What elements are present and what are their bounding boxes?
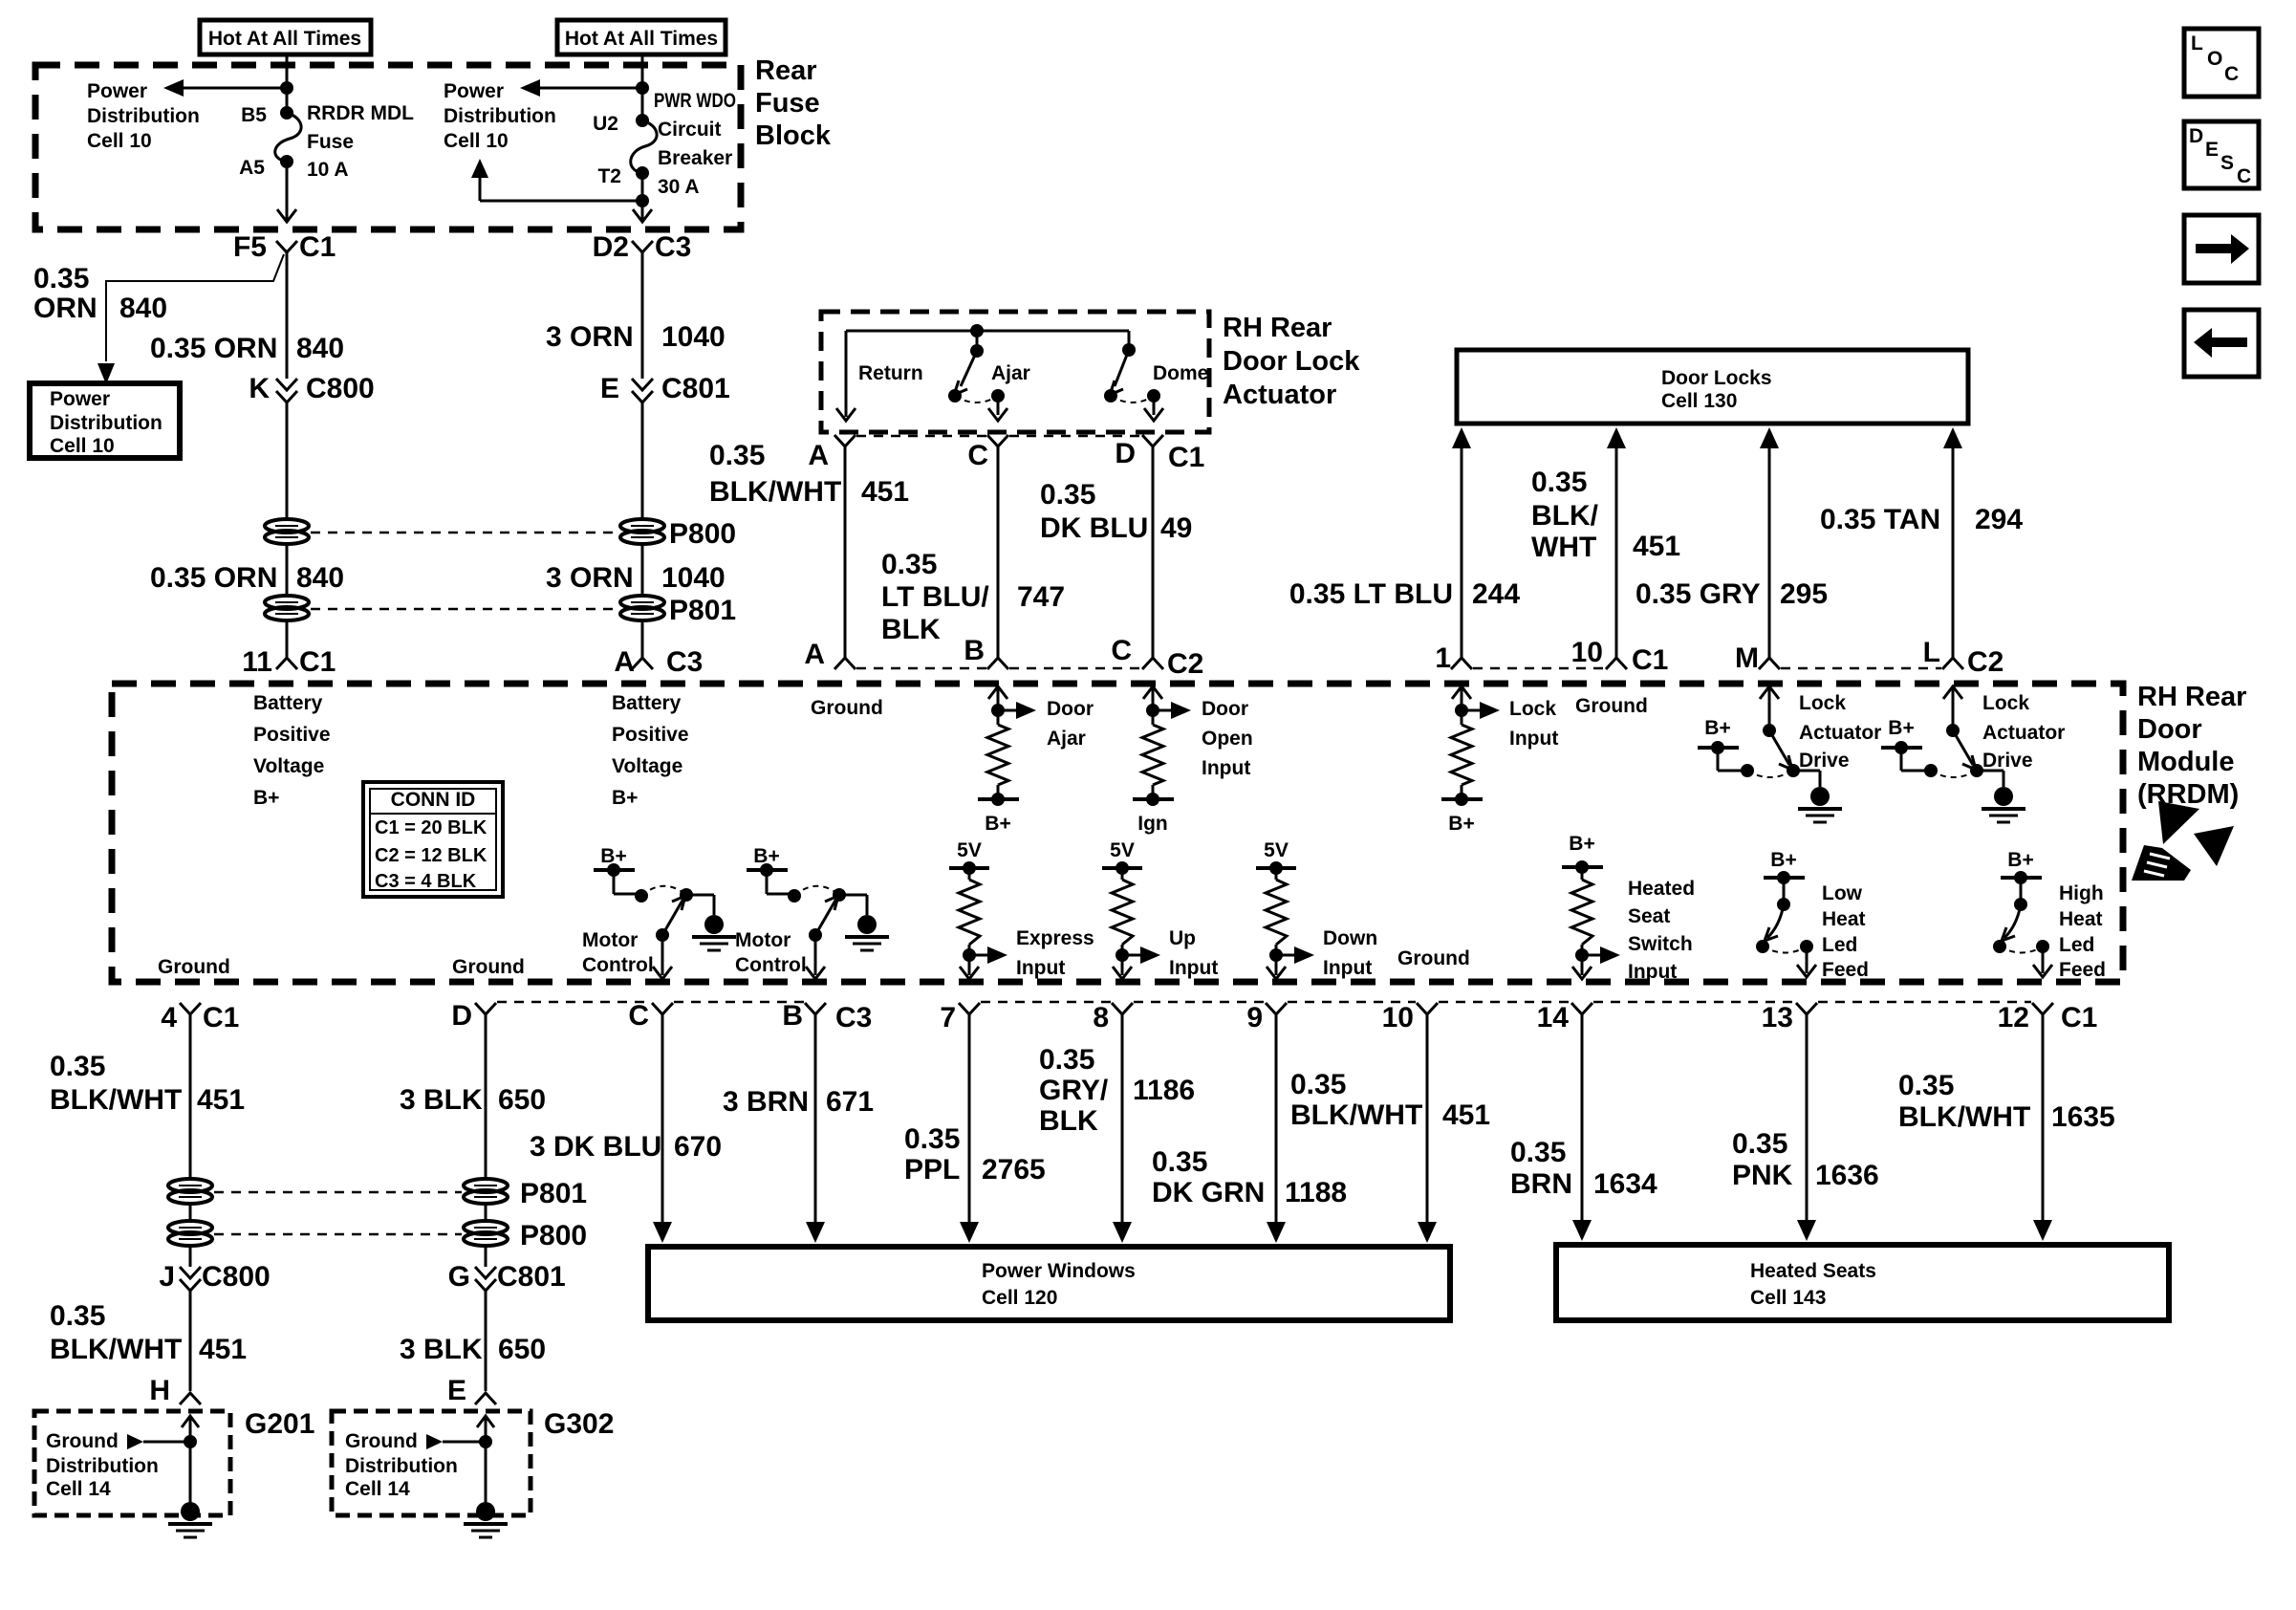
node B+ battery positive label (pin 11) [253, 692, 331, 809]
wire: 3 BLK 650 (G to E) [400, 1291, 546, 1391]
svg-text:451: 451 [197, 1084, 245, 1116]
inline connector P801 (ground right) [464, 1178, 587, 1209]
svg-text:F5: F5 [233, 231, 267, 263]
wire: 3 DK BLU 670 (pin C to Power Windows) [530, 1014, 722, 1243]
svg-text:C2 = 12 BLK: C2 = 12 BLK [375, 845, 487, 866]
switch: High Heat Led Feed (pin 12) [1993, 849, 2106, 981]
svg-text:1186: 1186 [1133, 1075, 1195, 1106]
svg-text:C1: C1 [299, 231, 336, 263]
wire: power distribution branch left 2 (arrow) [444, 79, 642, 152]
svg-text:Ground: Ground [345, 1430, 418, 1452]
wire: Return leg with arrow [836, 331, 923, 421]
svg-text:Lock: Lock [1509, 698, 1556, 720]
svg-text:Ground: Ground [158, 956, 230, 978]
svg-text:LT BLU/: LT BLU/ [881, 581, 989, 613]
svg-text:Heat: Heat [2059, 908, 2103, 930]
svg-text:C1: C1 [203, 1002, 239, 1033]
svg-text:O: O [2207, 48, 2222, 70]
wire: 3 ORN from C801 to P800 right [641, 402, 644, 519]
svg-text:U2: U2 [593, 113, 618, 135]
wire: between P801 and P800 [189, 1204, 192, 1221]
svg-text:5V: 5V [1264, 839, 1289, 861]
svg-text:451: 451 [861, 476, 909, 508]
svg-text:Input: Input [1628, 961, 1677, 983]
svg-text:Door Lock: Door Lock [1223, 346, 1360, 377]
svg-text:G302: G302 [544, 1408, 614, 1440]
svg-text:0.35: 0.35 [1290, 1069, 1346, 1100]
svg-text:BRN: BRN [1510, 1168, 1572, 1200]
svg-text:0.35: 0.35 [904, 1123, 960, 1155]
svg-text:Drive: Drive [1799, 750, 1850, 772]
svg-text:Up: Up [1169, 927, 1196, 949]
nav icon: DESC box [2184, 121, 2259, 188]
connector pin E (to G302) [447, 1375, 496, 1406]
svg-text:S: S [2220, 152, 2234, 174]
svg-text:CONN ID: CONN ID [391, 789, 476, 811]
wire: 0.35 GRY/BLK 1186 (pin 8 to Power Windows) [1039, 1014, 1195, 1243]
connector C3 pin D2 [593, 231, 692, 263]
dashed tie lines P801/P800 (ground) [214, 1192, 462, 1234]
wire: 0.35 BRN 1634 (pin 14 to Heated Seats) [1510, 1014, 1657, 1241]
svg-text:Door: Door [1047, 698, 1094, 720]
dashed connector face line C3 (D-C-B) [497, 1001, 804, 1004]
svg-text:Cell 10: Cell 10 [50, 435, 115, 457]
svg-text:L: L [2191, 33, 2203, 54]
svg-text:B+: B+ [1448, 813, 1474, 835]
svg-text:11: 11 [242, 646, 272, 678]
inline connector P801 (right) [620, 595, 736, 626]
svg-text:1040: 1040 [661, 562, 726, 594]
svg-text:0.35: 0.35 [1531, 467, 1587, 498]
connector C1 pin 13 [1762, 1002, 1817, 1033]
svg-text:Control: Control [582, 954, 654, 976]
connector C1 pin 8 [1093, 1002, 1133, 1033]
svg-text:C: C [1111, 635, 1132, 666]
svg-text:B+: B+ [1888, 717, 1914, 739]
svg-text:Down: Down [1323, 927, 1377, 949]
svg-text:C3 = 4 BLK: C3 = 4 BLK [375, 871, 477, 892]
svg-text:10: 10 [1382, 1002, 1414, 1033]
svg-text:294: 294 [1975, 504, 2023, 535]
svg-text:3 BRN: 3 BRN [723, 1086, 809, 1118]
svg-text:C: C [2224, 63, 2239, 85]
svg-text:Actuator: Actuator [1223, 380, 1336, 410]
svg-text:0.35: 0.35 [1732, 1128, 1787, 1160]
svg-text:1188: 1188 [1285, 1177, 1347, 1208]
svg-text:Block: Block [755, 120, 832, 151]
input circuit: Lock Input (pin 1) [1441, 686, 1558, 835]
svg-text:1634: 1634 [1593, 1168, 1657, 1200]
input circuit: Door Ajar (pin B) [978, 686, 1094, 835]
dashed connector face line (pins M-L) [1781, 667, 1941, 670]
svg-text:C1: C1 [2061, 1002, 2097, 1033]
wire: 0.35 BLK/WHT 1635 (pin 12 to Heated Seats) [1898, 1014, 2115, 1241]
svg-text:BLK/WHT: BLK/WHT [1290, 1099, 1422, 1131]
svg-text:B: B [964, 635, 985, 666]
wire: P800 to C801 pin G [485, 1246, 487, 1267]
connector C3 pin B (motor) [782, 1000, 872, 1033]
svg-text:BLK/WHT: BLK/WHT [50, 1084, 182, 1116]
connector C1 pin 9 [1246, 1002, 1287, 1033]
svg-text:BLK/WHT: BLK/WHT [1898, 1101, 2030, 1133]
svg-text:C1: C1 [1632, 644, 1668, 676]
svg-text:Ign: Ign [1137, 813, 1168, 835]
dashed tie line P800 [311, 532, 618, 534]
svg-text:Battery: Battery [612, 692, 682, 714]
svg-text:E: E [2205, 139, 2219, 161]
svg-text:BLK/WHT: BLK/WHT [50, 1334, 182, 1365]
svg-text:BLK: BLK [881, 614, 941, 645]
wire: actuator internal bus [846, 330, 1129, 333]
connector C800 pin J [159, 1261, 270, 1293]
ground G201 symbol [168, 1502, 212, 1537]
svg-text:Hot At All Times: Hot At All Times [208, 28, 361, 50]
connector C2 pin A (module) [804, 639, 856, 670]
ground distribution box G302 [332, 1408, 614, 1515]
svg-text:B+: B+ [1770, 849, 1796, 871]
circuit breaker: PWR WDO Circuit Breaker 30 A [593, 90, 736, 198]
wire: 0.35 ORN 840 branch to Power Distribution Cell 10 [33, 254, 284, 384]
svg-text:GRY/: GRY/ [1039, 1075, 1109, 1106]
wire: ORN 840 from C800 to P800 [286, 402, 289, 519]
svg-text:Cell 130: Cell 130 [1661, 390, 1737, 412]
svg-text:G: G [448, 1261, 470, 1293]
wire: 3 ORN to A/C3 [641, 620, 644, 657]
svg-text:B5: B5 [241, 104, 267, 126]
svg-text:C801: C801 [497, 1261, 566, 1293]
wire: 3 ORN 1040 between P800 and P801 right [546, 544, 726, 596]
svg-text:B+: B+ [985, 813, 1010, 835]
node Ground label (pin D) [452, 956, 525, 978]
CONN ID table [363, 782, 503, 897]
input circuit: Up Input (pin 8, 5V pull-up) [1102, 839, 1218, 979]
svg-text:D: D [2189, 125, 2203, 147]
connector pin H (to G201) [149, 1375, 201, 1406]
svg-text:5V: 5V [1110, 839, 1135, 861]
connector C2 pin L (lock actuator drive) [1923, 637, 2004, 678]
svg-text:Switch: Switch [1628, 933, 1693, 955]
inline connector P800 (ground left) [168, 1221, 212, 1246]
svg-text:DK GRN: DK GRN [1152, 1177, 1265, 1208]
svg-text:Door: Door [2137, 714, 2202, 745]
input circuit: Heated Seat Switch Input (pin 14) [1562, 833, 1695, 983]
nav icon: arrow left box [2184, 310, 2259, 377]
reference box: Power Distribution Cell 10 [30, 383, 180, 458]
svg-text:Seat: Seat [1628, 905, 1670, 927]
RH Rear Door Lock Actuator (dashed enclosure) [821, 312, 1360, 432]
junction box label: Hot At All Times (right) [557, 20, 726, 54]
svg-text:8: 8 [1093, 1002, 1109, 1033]
svg-text:C1: C1 [1168, 442, 1204, 473]
svg-text:ORN: ORN [33, 293, 97, 324]
svg-text:P800: P800 [520, 1220, 587, 1251]
svg-text:Motor: Motor [582, 929, 638, 951]
svg-text:Led: Led [1822, 934, 1857, 956]
svg-text:P800: P800 [669, 518, 736, 550]
wire: feed from Hot At All Times 1 to fuse B5 [280, 54, 293, 113]
svg-text:L: L [1923, 637, 1940, 668]
svg-text:Low: Low [1822, 882, 1863, 904]
input circuit: Down Input (pin 9, 5V pull-up) [1256, 839, 1377, 979]
connector C1 pin D (dome signal) [1115, 435, 1204, 473]
reference box: Heated Seats Cell 143 [1556, 1245, 2169, 1320]
svg-text:P801: P801 [669, 595, 736, 626]
svg-text:Heat: Heat [1822, 908, 1866, 930]
svg-text:Fuse: Fuse [307, 131, 354, 153]
svg-text:C1 = 20 BLK: C1 = 20 BLK [375, 817, 487, 838]
svg-text:(RRDM): (RRDM) [2137, 779, 2239, 810]
svg-text:0.35: 0.35 [709, 440, 765, 471]
connector C800 pin K [249, 373, 374, 404]
wire: 0.35 LT BLU/BLK 747 (actuator C to module B) [881, 446, 1065, 658]
dashed connector face line (pins 1-10) [1473, 667, 1605, 670]
wire: 3 BLK 650 (pin D to P801) [400, 1014, 546, 1179]
svg-text:0.35: 0.35 [1152, 1146, 1207, 1178]
svg-text:C3: C3 [666, 646, 703, 678]
svg-text:B: B [782, 1000, 803, 1032]
wire: 0.35 LT BLU 244 (pin 1 to Door Locks) [1289, 427, 1521, 658]
svg-text:C2: C2 [1167, 648, 1203, 680]
svg-text:0.35 ORN: 0.35 ORN [150, 562, 277, 594]
connector C1 pin F5 [233, 231, 336, 263]
svg-text:Feed: Feed [1822, 959, 1869, 981]
switch: window motor control (pin C) [582, 845, 736, 979]
node Ground label (pin 4) [158, 956, 230, 978]
Rear Fuse Block (dashed enclosure) [35, 55, 832, 229]
svg-text:D: D [1115, 438, 1136, 469]
inline connector P800 (right) [620, 518, 736, 550]
svg-text:A: A [804, 639, 825, 670]
svg-text:C800: C800 [306, 373, 375, 404]
svg-text:Power: Power [444, 80, 504, 102]
svg-text:Distribution: Distribution [50, 412, 162, 434]
svg-text:0.35 ORN: 0.35 ORN [150, 333, 277, 364]
connector C1 pin 11 (module battery feed) [242, 646, 336, 678]
svg-text:C3: C3 [655, 231, 691, 263]
wire: 0.35 BLK/WHT 451 (pin 4 to P801) [50, 1014, 245, 1179]
svg-text:Actuator: Actuator [1799, 722, 1881, 744]
svg-text:1635: 1635 [2051, 1101, 2115, 1133]
svg-text:C800: C800 [202, 1261, 271, 1293]
svg-text:Ajar: Ajar [991, 362, 1030, 384]
connector C3 pin A (module battery feed) [614, 646, 703, 678]
dashed connector face line C1 (7-12) [981, 1001, 2031, 1004]
svg-text:A5: A5 [239, 157, 265, 179]
svg-text:Express: Express [1016, 927, 1094, 949]
svg-text:1636: 1636 [1815, 1160, 1879, 1191]
svg-text:747: 747 [1017, 581, 1065, 613]
svg-text:0.35: 0.35 [1510, 1137, 1566, 1168]
svg-text:Power: Power [87, 80, 147, 102]
svg-text:Heated Seats: Heated Seats [1750, 1260, 1876, 1282]
svg-text:Cell 14: Cell 14 [46, 1478, 111, 1500]
svg-text:451: 451 [1442, 1099, 1490, 1131]
svg-text:0.35 GRY: 0.35 GRY [1635, 578, 1761, 610]
connector C3 pin C (motor) [628, 1000, 673, 1032]
switch: lock actuator drive L [1881, 686, 2065, 822]
svg-text:Feed: Feed [2059, 959, 2106, 981]
svg-text:Voltage: Voltage [253, 755, 324, 777]
svg-text:High: High [2059, 882, 2104, 904]
svg-text:RH Rear: RH Rear [1223, 313, 1332, 343]
inline connector P800 (ground right) [464, 1220, 587, 1251]
svg-text:13: 13 [1762, 1002, 1793, 1033]
svg-text:J: J [159, 1261, 175, 1293]
svg-text:0.35: 0.35 [881, 549, 937, 580]
svg-text:C1: C1 [299, 646, 336, 678]
wire: 3 BRN 671 (pin B to Power Windows) [723, 1014, 874, 1243]
svg-text:DK BLU: DK BLU [1040, 512, 1148, 544]
dashed connector face line C1 [856, 435, 1141, 438]
svg-text:C: C [628, 1000, 649, 1032]
svg-text:Cell 14: Cell 14 [345, 1478, 410, 1500]
svg-text:B+: B+ [1569, 833, 1594, 855]
svg-text:2765: 2765 [982, 1154, 1046, 1186]
wire: 0.35 BLK/WHT 451 (pin 10 to Door Locks) [1531, 427, 1680, 658]
svg-text:1040: 1040 [661, 321, 726, 353]
inline connector P800 (left) [265, 519, 309, 544]
svg-text:1: 1 [1435, 642, 1451, 674]
svg-text:Input: Input [1202, 757, 1250, 779]
svg-text:0.35: 0.35 [50, 1300, 105, 1332]
wire: 0.35 PNK 1636 (pin 13 to Heated Seats) [1732, 1014, 1879, 1241]
svg-text:Power: Power [50, 388, 110, 410]
svg-text:0.35: 0.35 [33, 263, 89, 294]
svg-text:3 ORN: 3 ORN [546, 321, 634, 353]
node Ground label (pin 10 module top) [1575, 695, 1648, 717]
wire: ORN to 11/C1 [286, 620, 289, 657]
svg-text:Actuator: Actuator [1982, 722, 2065, 744]
switch: door ajar contact [948, 324, 1030, 421]
svg-text:Ground: Ground [1575, 695, 1648, 717]
svg-text:Ajar: Ajar [1047, 728, 1086, 750]
svg-text:Input: Input [1509, 728, 1558, 750]
svg-text:E: E [447, 1375, 466, 1406]
connector C2 pin B (module) [964, 635, 1008, 669]
wire: between P801 and P800 right [485, 1204, 487, 1221]
svg-text:650: 650 [498, 1334, 546, 1365]
svg-text:BLK/WHT: BLK/WHT [709, 476, 841, 508]
svg-text:Positive: Positive [612, 724, 689, 746]
svg-text:Drive: Drive [1982, 750, 2033, 772]
reference box: Door Locks Cell 130 [1457, 350, 1968, 424]
svg-text:3 BLK: 3 BLK [400, 1334, 483, 1365]
svg-text:Distribution: Distribution [345, 1455, 458, 1477]
svg-text:B+: B+ [1704, 717, 1730, 739]
svg-text:B+: B+ [253, 787, 279, 809]
svg-text:650: 650 [498, 1084, 546, 1116]
ground distribution box G201 [34, 1408, 314, 1515]
wire: 0.35 ORN 840 (F5 to C800) [150, 252, 344, 379]
svg-text:Heated: Heated [1628, 878, 1695, 900]
svg-text:244: 244 [1472, 578, 1520, 610]
svg-text:Ground: Ground [452, 956, 525, 978]
connector C1 pin 4 (ground) [161, 1002, 239, 1033]
svg-text:Battery: Battery [253, 692, 323, 714]
node Ground label (pin A module) [811, 697, 883, 719]
svg-text:WHT: WHT [1531, 532, 1596, 563]
svg-text:Ground: Ground [811, 697, 883, 719]
svg-text:RH Rear: RH Rear [2137, 682, 2246, 712]
input circuit: Door Open Input (pin C) [1133, 686, 1253, 835]
svg-text:C: C [967, 440, 988, 471]
svg-text:Control: Control [735, 954, 807, 976]
svg-text:Dome: Dome [1153, 362, 1208, 384]
svg-text:49: 49 [1160, 512, 1192, 544]
wire: breaker T2 down to C3 connector [633, 173, 652, 222]
nav icon: LOC box [2184, 29, 2259, 97]
wire: 0.35 PPL 2765 (pin 7 to Power Windows) [904, 1014, 1046, 1243]
svg-text:Breaker: Breaker [658, 147, 732, 169]
inline connector P801 (left) [265, 596, 309, 620]
node B+ battery positive label (pin A) [612, 692, 689, 809]
svg-text:Lock: Lock [1982, 692, 2029, 714]
wire: fuse A5 down to C1 connector [277, 162, 296, 222]
svg-text:B+: B+ [2007, 849, 2033, 871]
svg-text:PNK: PNK [1732, 1160, 1793, 1191]
svg-text:E: E [600, 373, 619, 404]
switch: lock actuator drive M [1698, 686, 1881, 822]
svg-text:Led: Led [2059, 934, 2094, 956]
svg-text:0.35 TAN: 0.35 TAN [1820, 504, 1940, 535]
connector C1 pin 10 [1382, 1002, 1438, 1033]
svg-text:D2: D2 [593, 231, 629, 263]
input circuit: Express Input (pin 7, 5V pull-up) [949, 839, 1094, 979]
svg-text:PPL: PPL [904, 1154, 960, 1186]
svg-text:Cell 120: Cell 120 [982, 1287, 1057, 1309]
svg-text:PWR WDO: PWR WDO [654, 90, 736, 112]
node Ground label (pin 10 bottom) [1397, 947, 1470, 969]
svg-text:12: 12 [1998, 1002, 2029, 1033]
wire: 3 ORN 1040 (D2 to C801) [546, 252, 726, 379]
inline connector P801 (ground left) [168, 1179, 212, 1204]
svg-text:30 A: 30 A [658, 176, 700, 198]
svg-text:RRDR MDL: RRDR MDL [307, 102, 414, 124]
dashed connector face line C2 (top row) [856, 667, 1141, 670]
svg-text:Module: Module [2137, 747, 2235, 777]
svg-text:G201: G201 [245, 1408, 314, 1440]
svg-text:451: 451 [1633, 531, 1680, 562]
ESD sensitivity symbol [2132, 801, 2234, 881]
svg-text:0.35: 0.35 [1898, 1070, 1954, 1101]
svg-text:Return: Return [858, 362, 923, 384]
svg-text:BLK: BLK [1039, 1105, 1098, 1137]
connector C1 pin 10 (ground to door locks) [1571, 637, 1669, 676]
svg-text:3 DK BLU: 3 DK BLU [530, 1131, 661, 1163]
svg-text:10 A: 10 A [307, 159, 349, 181]
connector C1 pin 7 [940, 1002, 980, 1033]
svg-text:671: 671 [826, 1086, 874, 1118]
svg-text:9: 9 [1246, 1002, 1263, 1033]
svg-text:840: 840 [296, 333, 344, 364]
svg-text:3 BLK: 3 BLK [400, 1084, 483, 1116]
svg-text:K: K [249, 373, 270, 404]
svg-text:Input: Input [1169, 957, 1218, 979]
switch: Low Heat Led Feed (pin 13) [1756, 849, 1869, 981]
switch: dome contact [1104, 331, 1208, 421]
connector C3 pin D (ground) [451, 1000, 496, 1032]
svg-text:Door: Door [1202, 698, 1248, 720]
svg-text:Input: Input [1016, 957, 1065, 979]
svg-text:Lock: Lock [1799, 692, 1846, 714]
junction box label: Hot At All Times (left) [200, 20, 371, 54]
svg-text:Cell 143: Cell 143 [1750, 1287, 1826, 1309]
svg-text:B+: B+ [612, 787, 638, 809]
svg-text:BLK/: BLK/ [1531, 500, 1599, 532]
svg-text:Motor: Motor [735, 929, 791, 951]
dashed tie line P801 [311, 608, 618, 611]
wire: 0.35 BLK/WHT 451 (actuator A to module A) [709, 440, 909, 658]
